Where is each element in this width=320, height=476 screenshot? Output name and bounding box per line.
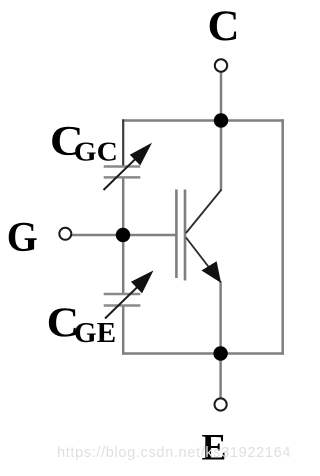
wire: left vertical segment from top-left corner to capacitor CGC — [122, 119, 124, 166]
svg-text:https://blog.csdn.net/ks319221: https://blog.csdn.net/ks31922164 — [57, 445, 291, 461]
node: gate junction dot — [116, 228, 130, 242]
wire: emitter drop from IGBT to bottom junction — [219, 281, 222, 354]
transistor Q1 (IGBT): emitter diagonal — [186, 238, 218, 280]
capacitor CGE: bottom plate — [104, 304, 141, 307]
terminal E: open circle — [215, 398, 227, 410]
capacitor CGE: top plate — [104, 293, 141, 296]
wire: collector drop from top junction to IGBT bend — [220, 119, 223, 190]
transistor Q1 (IGBT): gate bar — [175, 190, 178, 279]
wire: emitter lead from bottom junction to terminal E — [219, 353, 222, 398]
node: top junction dot (collector rail) — [214, 113, 228, 127]
transistor Q1 (IGBT): emitter arrow head — [203, 262, 221, 281]
capacitor CGE: variable arrow shaft — [105, 282, 143, 319]
capacitor CGC: variable arrow head — [131, 144, 151, 165]
transistor Q1 (IGBT): body bar — [184, 190, 187, 281]
terminal G: open circle — [59, 228, 71, 240]
wire: right vertical side of loop — [281, 119, 284, 354]
wire: bottom horizontal rail (emitter loop) — [122, 352, 284, 355]
transistor Q1 (IGBT): collector diagonal — [186, 190, 222, 234]
capacitor CGC: variable arrow shaft — [104, 154, 142, 191]
wire: left vertical segment below CGE to bottom-left corner — [122, 306, 125, 355]
wire: gate node to IGBT gate bar — [122, 234, 176, 237]
wire: gate lead from terminal G to gate node — [72, 234, 125, 237]
capacitor CGE: variable arrow head — [132, 272, 153, 293]
capacitor CGC: bottom plate — [104, 176, 141, 179]
wire: top horizontal rail (collector loop) — [122, 119, 284, 122]
node: bottom junction dot (emitter rail) — [213, 346, 227, 360]
wire: left vertical segment CGC to CGE through gate node — [122, 178, 125, 295]
capacitor CGC: top plate — [104, 165, 141, 168]
terminal C: open circle — [215, 59, 227, 71]
wire: collector lead from terminal C down to top junction — [220, 72, 223, 122]
